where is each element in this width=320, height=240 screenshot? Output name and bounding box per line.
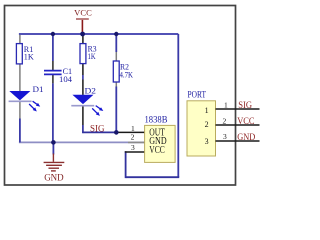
svg-text:SIG: SIG <box>90 124 105 134</box>
U1 pin name OUT <box>149 127 165 138</box>
connector PORT body <box>187 90 216 156</box>
U1 pin number 3 <box>131 143 135 152</box>
U1 pin name VCC <box>149 145 165 156</box>
svg-text:VCC: VCC <box>237 116 254 126</box>
wire R1 top lead <box>19 35 21 44</box>
wire U1 pin1 lead <box>116 131 144 133</box>
wire D1 cathode down lead <box>19 101 21 119</box>
svg-text:GND: GND <box>237 132 255 142</box>
svg-text:2: 2 <box>223 116 227 125</box>
net label SIG (middle) <box>90 124 105 134</box>
U1 pin number 2 <box>131 133 135 142</box>
PORT inner pin 2 <box>205 120 209 129</box>
wire D1 corner to GND rail <box>19 119 21 143</box>
svg-text:PORT: PORT <box>188 90 207 100</box>
wire VCC top rail <box>19 33 178 35</box>
wire D2 cathode down lead <box>82 106 84 133</box>
IC U1 1838B body <box>145 116 176 163</box>
wire SIG horizontal <box>82 131 116 133</box>
net label VCC (right) <box>237 116 254 126</box>
svg-text:1: 1 <box>224 101 228 110</box>
ground symbol GND <box>44 154 65 184</box>
PORT pin number 2 <box>223 116 227 125</box>
LED D2 <box>71 87 103 116</box>
svg-text:D2: D2 <box>85 87 97 96</box>
resistor R3 <box>80 44 97 64</box>
svg-text:VCC: VCC <box>149 145 165 156</box>
junction VCC/R3 <box>80 32 85 37</box>
wire VCC loop bottom <box>126 176 180 178</box>
capacitor C1 <box>44 67 72 84</box>
PORT pin number 3 <box>223 132 227 141</box>
wire R2 top lead <box>115 34 117 61</box>
wire PORT pin2 <box>216 124 260 126</box>
wire R2 bottom lead <box>115 82 117 132</box>
U1 pin number 1 <box>131 124 135 133</box>
junction C1 top <box>51 32 55 36</box>
resistor R2 <box>113 61 133 82</box>
wire VCC right drop to loop <box>177 34 179 177</box>
svg-text:2: 2 <box>205 120 209 129</box>
svg-text:2: 2 <box>131 133 135 142</box>
PORT inner pin 3 <box>205 137 209 146</box>
svg-text:1K: 1K <box>24 53 34 62</box>
wire C1 bottom lead <box>52 75 54 143</box>
wire VCC loop left vertical <box>125 151 127 178</box>
PORT inner pin 1 <box>205 106 209 115</box>
resistor R1 <box>16 44 34 64</box>
svg-text:3: 3 <box>223 132 227 141</box>
wire R3 top lead <box>82 34 84 44</box>
svg-text:1: 1 <box>205 106 209 115</box>
svg-text:3: 3 <box>131 143 135 152</box>
wire PORT pin1 <box>216 108 260 110</box>
wire R3 to D2 lead <box>82 64 84 95</box>
junction GND/C1 bottom <box>51 140 56 145</box>
wire GND rail <box>19 141 145 143</box>
wire U1 pin3 lead <box>125 151 145 153</box>
LED D1 <box>9 85 44 112</box>
wire U1 pin2 lead <box>128 141 145 143</box>
svg-text:GND: GND <box>44 174 64 184</box>
svg-text:4.7K: 4.7K <box>120 70 134 79</box>
svg-text:1K: 1K <box>88 52 96 61</box>
PORT pin number 1 <box>224 101 228 110</box>
wire PORT pin3 <box>216 140 260 142</box>
svg-text:1838B: 1838B <box>145 116 168 126</box>
svg-text:D1: D1 <box>33 85 44 94</box>
wire R1 to D1 lead <box>19 64 21 92</box>
power symbol VCC <box>74 8 92 34</box>
wire GND symbol drop <box>52 142 54 154</box>
wire C1 top lead <box>52 34 54 70</box>
svg-text:SIG: SIG <box>238 100 252 110</box>
net label GND (right) <box>237 132 255 142</box>
svg-text:3: 3 <box>205 137 209 146</box>
junction R2 top <box>114 32 118 36</box>
sheet border frame <box>5 6 236 186</box>
svg-text:VCC: VCC <box>74 8 92 18</box>
junction SIG/R2 <box>114 130 119 135</box>
net label SIG (right) <box>238 100 252 110</box>
svg-text:104: 104 <box>59 75 72 84</box>
U1 pin name GND <box>149 136 166 147</box>
